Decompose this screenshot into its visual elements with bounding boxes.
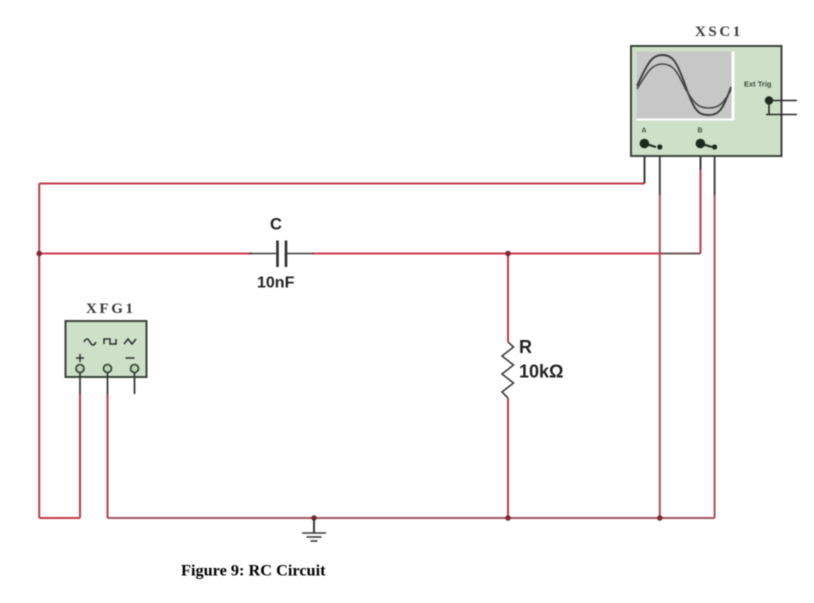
- svg-text:C: C: [270, 216, 282, 234]
- svg-text:XFG1: XFG1: [86, 301, 136, 317]
- svg-text:Ext Trig: Ext Trig: [744, 80, 772, 89]
- svg-text:10kΩ: 10kΩ: [519, 362, 563, 382]
- svg-text:R: R: [519, 337, 532, 357]
- svg-text:A: A: [642, 128, 647, 135]
- svg-text:B: B: [698, 128, 703, 135]
- svg-text:10nF: 10nF: [257, 275, 295, 292]
- svg-text:Figure 9: RC Circuit: Figure 9: RC Circuit: [181, 561, 326, 580]
- svg-text:XSC1: XSC1: [695, 24, 743, 40]
